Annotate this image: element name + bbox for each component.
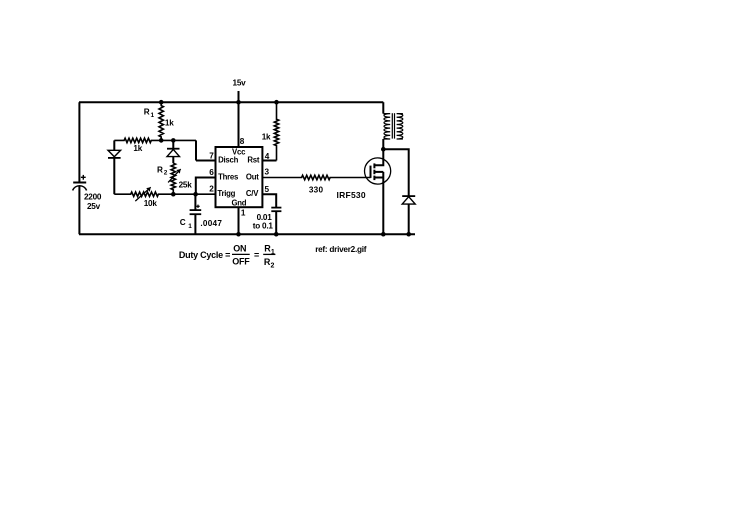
transistor drain xyxy=(374,149,383,165)
node gnd flyback xyxy=(406,232,411,237)
node R2 bottom xyxy=(171,192,176,197)
resistor 1k reset pullup xyxy=(274,102,278,160)
svg-text:2: 2 xyxy=(209,185,214,194)
battery plus sign xyxy=(81,176,86,178)
potentiometer arrow 10k xyxy=(135,187,150,201)
wire pin5 stub xyxy=(262,194,276,207)
wire top supply rail xyxy=(79,101,383,103)
capacitor C1 xyxy=(194,194,196,210)
resistor R1 1k vertical xyxy=(159,102,163,140)
svg-text:25v: 25v xyxy=(87,202,101,211)
svg-text:ref: driver2.gif: ref: driver2.gif xyxy=(315,245,367,254)
wire top rail corner to transformer xyxy=(382,102,384,113)
svg-text:ON: ON xyxy=(233,244,246,254)
diode D3 flyback xyxy=(402,195,415,197)
svg-text:8: 8 xyxy=(240,137,245,146)
transistor gate bar xyxy=(370,166,372,178)
wire left rail upper xyxy=(78,102,80,182)
svg-text:25k: 25k xyxy=(179,181,193,190)
svg-text:C: C xyxy=(180,218,186,227)
svg-text:Gnd: Gnd xyxy=(231,199,246,208)
svg-text:Thres: Thres xyxy=(218,172,239,181)
svg-text:2: 2 xyxy=(271,262,275,269)
svg-text:to 0.1: to 0.1 xyxy=(253,222,274,231)
svg-text:Out: Out xyxy=(246,172,259,181)
svg-text:1: 1 xyxy=(241,209,246,218)
node reset pullup top xyxy=(274,100,279,105)
node D2 top xyxy=(171,138,176,143)
transistor Q1 circle xyxy=(365,158,391,184)
wire left rail lower xyxy=(78,186,80,234)
node gnd pin1 xyxy=(236,232,241,237)
svg-text:0.01: 0.01 xyxy=(257,213,273,222)
svg-text:.0047: .0047 xyxy=(200,219,222,228)
svg-text:3: 3 xyxy=(265,167,270,176)
wire drain node to flyback xyxy=(383,149,408,196)
svg-text:Trigg: Trigg xyxy=(217,189,235,198)
wire disch to pin7 xyxy=(196,160,216,162)
svg-text:1k: 1k xyxy=(133,144,142,153)
node C1 top xyxy=(193,192,198,197)
svg-text:IRF530: IRF530 xyxy=(337,190,366,200)
C1 plus sign xyxy=(196,205,199,207)
svg-text:Disch: Disch xyxy=(218,156,238,165)
wire pin4 stub xyxy=(262,160,276,162)
node R1 bottom xyxy=(159,138,164,143)
formula bar 2 xyxy=(263,253,275,255)
svg-text:C/V: C/V xyxy=(246,189,259,198)
svg-text:R: R xyxy=(157,165,163,174)
wire 15v supply stub to pin 8 xyxy=(238,91,240,147)
svg-text:7: 7 xyxy=(209,152,214,161)
svg-text:2200: 2200 xyxy=(84,193,102,202)
formula bar 1 xyxy=(232,253,250,255)
op-amp U1 555 box xyxy=(216,147,263,207)
resistor 330 on out wire xyxy=(262,175,370,179)
svg-text:=: = xyxy=(254,250,259,260)
resistor 1k horizontal xyxy=(114,138,196,142)
svg-text:330: 330 xyxy=(309,185,324,194)
node drain xyxy=(381,147,386,152)
capacitor 0.01 xyxy=(271,207,281,209)
inductor primary winding xyxy=(383,114,390,139)
node gnd cap xyxy=(274,232,279,237)
diode D2 xyxy=(172,140,174,148)
svg-text:Rst: Rst xyxy=(247,156,259,165)
node 15v junction xyxy=(236,100,241,105)
inductor secondary winding xyxy=(397,114,403,139)
node gnd source xyxy=(381,232,386,237)
svg-text:OFF: OFF xyxy=(232,257,250,267)
node R1 top xyxy=(159,100,164,105)
wire disch jog down xyxy=(195,140,197,160)
svg-text:R: R xyxy=(144,107,150,116)
wire transformer to drain node xyxy=(382,139,384,149)
wire bottom ground rail xyxy=(79,233,415,235)
wire trigger row xyxy=(114,192,215,196)
svg-text:1k: 1k xyxy=(165,119,174,128)
wire thres link xyxy=(196,178,216,195)
transformer core xyxy=(391,113,393,138)
svg-text:6: 6 xyxy=(209,168,214,177)
capacitor battery 2200uF plates xyxy=(73,182,86,184)
diode D1 xyxy=(113,140,115,150)
transistor body link xyxy=(374,171,383,173)
svg-text:1k: 1k xyxy=(262,132,271,141)
potentiometer arrow R2 xyxy=(168,169,181,182)
svg-text:10k: 10k xyxy=(144,199,158,208)
wire pin1 gnd stub xyxy=(238,207,240,234)
svg-text:15v: 15v xyxy=(233,78,247,87)
resistor R2 25k pot xyxy=(171,163,175,194)
transistor source xyxy=(374,177,383,179)
svg-text:5: 5 xyxy=(265,185,270,194)
svg-text:Duty Cycle =: Duty Cycle = xyxy=(179,250,230,260)
transistor channel segments xyxy=(373,163,375,168)
